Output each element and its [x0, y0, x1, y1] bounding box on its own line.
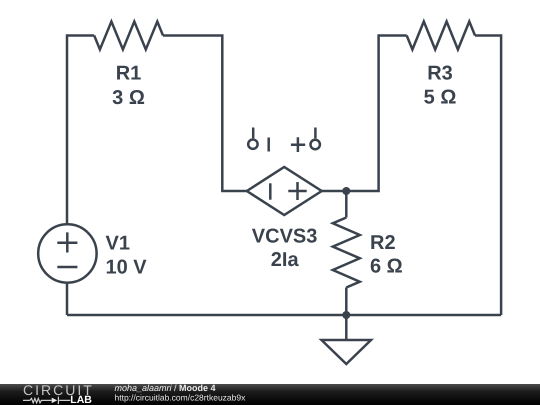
svg-text:2Ia: 2Ia	[271, 249, 300, 271]
svg-text:3 Ω: 3 Ω	[112, 87, 145, 109]
VCVS control terminal right	[311, 140, 320, 149]
ground stem	[345, 315, 348, 340]
wire R2 top lead	[345, 191, 348, 218]
svg-text:V1: V1	[106, 233, 130, 255]
ground	[322, 340, 372, 364]
footer bar	[0, 384, 540, 405]
node junction VCVS/R2/R3	[342, 187, 350, 195]
logo diode	[52, 398, 58, 404]
VCVS control terminal left	[252, 128, 255, 139]
resistor R1	[94, 22, 163, 50]
svg-text:R2: R2	[370, 232, 396, 254]
wire VCVS right to R3 branch	[322, 36, 407, 192]
control terminal minus label	[267, 138, 270, 152]
logo squiggle wire	[23, 397, 70, 405]
VCVS plus mark	[288, 182, 306, 200]
svg-text:6 Ω: 6 Ω	[370, 256, 403, 278]
wire left rail top	[67, 36, 94, 225]
wire bottom rail	[67, 314, 501, 317]
svg-text:R1: R1	[116, 62, 142, 84]
svg-text:R3: R3	[427, 62, 453, 84]
wire V1 bottom	[66, 283, 69, 315]
resistor R3	[407, 22, 475, 50]
wire R1 to corner	[163, 36, 247, 192]
resistor R2	[333, 218, 360, 288]
voltage source V1	[38, 224, 96, 282]
svg-text:moha_alaamri / Moode 4: moha_alaamri / Moode 4	[115, 383, 216, 393]
dependent source VCVS3 diamond body	[247, 167, 322, 215]
svg-text:5 Ω: 5 Ω	[424, 87, 457, 109]
svg-text:VCVS3: VCVS3	[252, 226, 318, 248]
svg-text:10 V: 10 V	[106, 257, 148, 279]
VCVS minus mark	[269, 183, 272, 199]
wire R2 bottom lead	[345, 288, 348, 316]
svg-text:LAB: LAB	[70, 394, 92, 405]
node junction R2/ground/bottom rail	[342, 311, 350, 319]
svg-text:http://circuitlab.com/c28rtkeu: http://circuitlab.com/c28rtkeuzab9x	[115, 392, 247, 402]
control terminal plus label	[291, 137, 305, 152]
wire R3 right rail	[475, 36, 501, 316]
